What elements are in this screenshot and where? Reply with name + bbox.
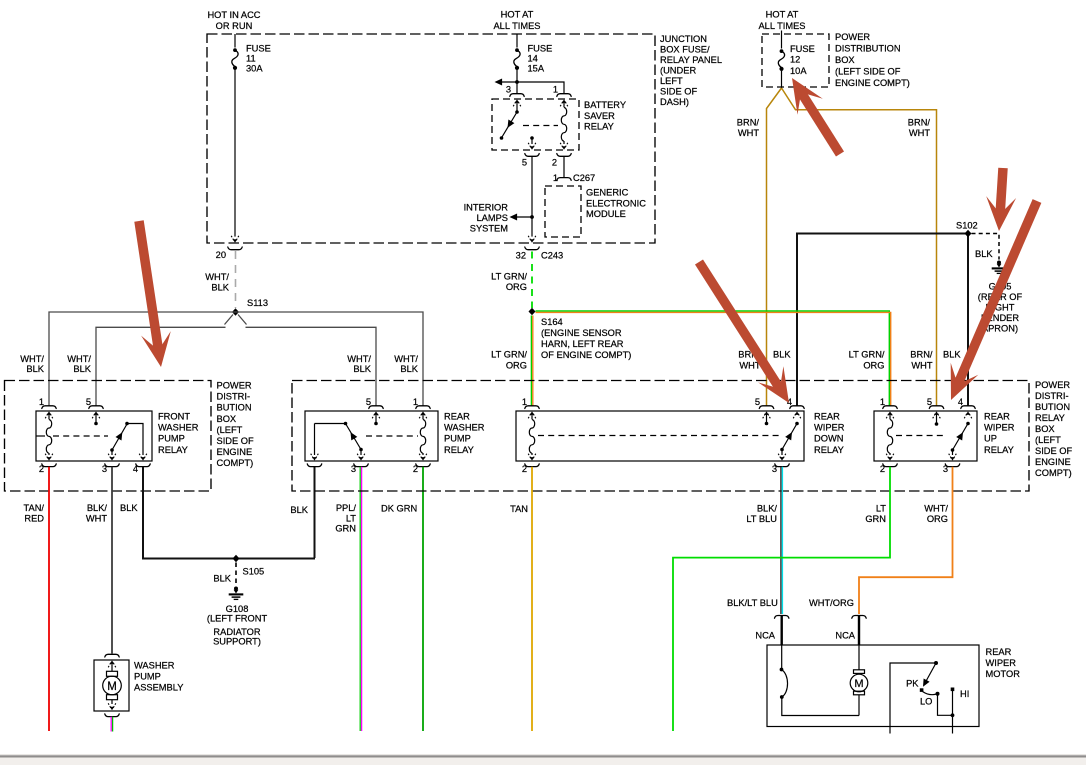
svg-text:DASH): DASH) — [660, 97, 689, 107]
junction box fuse/relay panel (dashed enclosure) — [207, 34, 655, 243]
svg-text:(LEFT: (LEFT — [217, 425, 243, 435]
svg-text:TAN: TAN — [510, 504, 528, 514]
svg-text:GENERIC: GENERIC — [586, 188, 629, 198]
svg-text:BLK: BLK — [211, 282, 229, 292]
wire stub to other circuits (left arrow) — [500, 81, 517, 83]
svg-text:(LEFT SIDE OF: (LEFT SIDE OF — [835, 66, 901, 76]
svg-text:BLK: BLK — [120, 503, 138, 513]
rear wiper up relay — [874, 411, 977, 461]
wire WHT/ORG from pin 3 — [859, 467, 953, 614]
svg-text:BUTION: BUTION — [217, 403, 252, 413]
wire BLK dashed to ground G105 — [972, 234, 1000, 260]
svg-text:WASHER: WASHER — [444, 423, 485, 433]
svg-text:RELAY: RELAY — [444, 445, 474, 455]
splice S164 — [529, 308, 536, 315]
svg-text:REAR: REAR — [814, 412, 840, 422]
svg-text:1: 1 — [553, 173, 558, 183]
svg-text:MODULE: MODULE — [586, 209, 626, 219]
washer pump motor M — [107, 671, 118, 676]
svg-text:ENGINE COMPT): ENGINE COMPT) — [835, 78, 910, 88]
svg-text:WIPER: WIPER — [984, 423, 1015, 433]
svg-text:ORG: ORG — [506, 282, 527, 292]
rear washer pump relay — [305, 411, 438, 461]
wire DK GRN from pin 2 — [422, 467, 424, 731]
svg-text:RELAY PANEL: RELAY PANEL — [660, 55, 722, 65]
svg-text:FUSE: FUSE — [246, 44, 271, 54]
ground G105 — [992, 261, 1007, 274]
svg-text:LT GRN/: LT GRN/ — [491, 350, 527, 360]
svg-text:DISTRI-: DISTRI- — [217, 392, 251, 402]
svg-text:BATTERY: BATTERY — [584, 100, 626, 110]
svg-text:S105: S105 — [243, 567, 265, 577]
washer pump assembly — [105, 654, 119, 657]
wire WHT/BLK branches from S113 — [49, 312, 236, 406]
node HI — [951, 688, 955, 692]
svg-text:RELAY: RELAY — [1035, 413, 1065, 423]
svg-text:COMPT): COMPT) — [1035, 468, 1072, 478]
wire battery saver pin 5 down to pin 32 — [531, 156, 533, 236]
svg-text:BLK: BLK — [975, 249, 993, 259]
svg-text:C267: C267 — [573, 173, 595, 183]
svg-text:NCA: NCA — [835, 631, 855, 641]
svg-text:DISTRI-: DISTRI- — [1035, 391, 1069, 401]
wire WHT/BLK dashed from pin 20 to S113 — [235, 251, 237, 308]
svg-text:PPL/: PPL/ — [336, 503, 357, 513]
generic electronic module (dashed box) — [545, 186, 581, 237]
svg-text:LT GRN/: LT GRN/ — [491, 272, 527, 282]
svg-text:BRN/: BRN/ — [910, 350, 933, 360]
svg-text:INTERIOR: INTERIOR — [464, 203, 509, 213]
wire junction to battery saver relay pin 1 — [517, 82, 564, 93]
junction to interior lamps system — [530, 215, 534, 219]
svg-text:RELAY: RELAY — [584, 122, 614, 132]
svg-text:LAMPS: LAMPS — [476, 213, 508, 223]
power distribution relay box (dashed enclosure) — [292, 381, 1029, 492]
svg-text:GRN: GRN — [865, 514, 886, 524]
svg-text:BRN/: BRN/ — [737, 118, 760, 128]
svg-text:MOTOR: MOTOR — [986, 669, 1021, 679]
svg-text:BLK: BLK — [943, 350, 961, 360]
svg-text:LT BLU: LT BLU — [746, 514, 777, 524]
wire BLK joining front and rear washer relays — [142, 558, 315, 560]
park switch contact — [781, 645, 783, 670]
svg-text:14: 14 — [528, 54, 538, 64]
svg-text:RELAY: RELAY — [158, 445, 188, 455]
wire BLK from rear washer relay to S105 — [314, 467, 316, 558]
svg-text:LEFT: LEFT — [660, 76, 683, 86]
wire to fuse 14 — [516, 34, 518, 48]
svg-text:WHT/ORG: WHT/ORG — [809, 598, 854, 608]
rear wiper up relay switch — [966, 422, 970, 426]
svg-text:WHT/: WHT/ — [394, 354, 418, 364]
rear wiper down relay switch — [795, 422, 799, 426]
wire fuse 11 to pin 20 — [234, 70, 236, 237]
svg-text:BLK: BLK — [400, 364, 418, 374]
svg-text:REAR: REAR — [984, 412, 1010, 422]
wire junction down to battery saver relay pin 3 — [516, 82, 518, 93]
svg-text:WHT/: WHT/ — [205, 272, 229, 282]
svg-text:BLK: BLK — [773, 350, 791, 360]
svg-text:ORG: ORG — [927, 514, 948, 524]
svg-text:C243: C243 — [541, 251, 563, 261]
svg-text:FUSE: FUSE — [528, 44, 553, 54]
svg-text:ORG: ORG — [506, 360, 527, 370]
rear wiper up relay coil — [889, 412, 891, 419]
svg-text:UP: UP — [984, 434, 997, 444]
svg-text:20: 20 — [216, 250, 226, 260]
svg-text:DISTRIBUTION: DISTRIBUTION — [835, 44, 901, 54]
svg-text:PK: PK — [906, 679, 919, 689]
svg-text:SIDE OF: SIDE OF — [1035, 446, 1073, 456]
svg-text:S113: S113 — [247, 298, 268, 308]
svg-text:11: 11 — [246, 54, 256, 64]
svg-text:BLK/LT BLU: BLK/LT BLU — [727, 598, 778, 608]
svg-text:ALL TIMES: ALL TIMES — [493, 21, 540, 31]
svg-text:RADIATOR: RADIATOR — [213, 627, 260, 637]
wire LT GRN/ORG dashed from pin 32 to S164 — [531, 252, 533, 309]
svg-text:BRN/: BRN/ — [908, 118, 931, 128]
rear wiper motor M — [858, 645, 860, 670]
window bottom bar — [0, 754, 1086, 755]
svg-text:OF ENGINE COMPT): OF ENGINE COMPT) — [541, 350, 631, 360]
svg-text:REAR: REAR — [444, 412, 470, 422]
svg-text:15A: 15A — [528, 64, 545, 74]
relay actuator (dashed link) — [366, 435, 418, 437]
front washer relay switch — [110, 448, 114, 452]
svg-text:HOT IN ACC: HOT IN ACC — [207, 10, 260, 20]
svg-text:TAN/: TAN/ — [24, 503, 45, 513]
junction node below fuse 14 — [515, 80, 519, 84]
wire TAN/RED from pin 2 — [48, 467, 50, 731]
svg-text:RELAY: RELAY — [814, 445, 844, 455]
svg-text:BLK: BLK — [26, 364, 44, 374]
svg-text:2: 2 — [552, 158, 557, 168]
svg-text:S164: S164 — [541, 317, 563, 327]
svg-text:10A: 10A — [790, 66, 807, 76]
wire BLK/LT BLU from pin 3 — [780, 467, 782, 614]
battery saver relay switch — [516, 101, 518, 113]
svg-text:ELECTRONIC: ELECTRONIC — [586, 198, 646, 208]
power distribution box (fuse 12, dashed) — [762, 34, 829, 87]
svg-text:WIPER: WIPER — [986, 658, 1017, 668]
svg-text:5: 5 — [522, 158, 527, 168]
wire PNK/GRN stub below washer pump — [110, 717, 112, 732]
svg-text:FUSE: FUSE — [790, 44, 815, 54]
svg-text:BOX: BOX — [217, 414, 237, 424]
svg-text:BOX FUSE/: BOX FUSE/ — [660, 45, 710, 55]
svg-text:FRONT: FRONT — [158, 412, 190, 422]
svg-text:WASHER: WASHER — [134, 661, 175, 671]
splice S102 — [965, 230, 972, 237]
svg-text:PUMP: PUMP — [134, 672, 161, 682]
svg-text:OR RUN: OR RUN — [216, 21, 253, 31]
svg-text:12: 12 — [790, 55, 800, 65]
svg-text:BLK/: BLK/ — [757, 504, 778, 514]
rear wiper down relay — [516, 411, 804, 461]
svg-text:DOWN: DOWN — [814, 434, 843, 444]
svg-text:ENGINE: ENGINE — [1035, 457, 1071, 467]
node LO — [936, 692, 940, 696]
relay actuator (dashed link) — [53, 435, 108, 437]
svg-text:ENGINE: ENGINE — [217, 447, 253, 457]
wire LT GRN from pin 2 — [673, 467, 890, 731]
svg-text:LT: LT — [876, 504, 886, 514]
wire BLK dashed to ground G108 — [235, 563, 237, 587]
svg-text:RELAY: RELAY — [984, 445, 1014, 455]
front washer relay coil — [48, 412, 50, 419]
pin 5 internal stub — [530, 136, 534, 140]
svg-text:WHT: WHT — [86, 513, 107, 523]
svg-text:DK GRN: DK GRN — [381, 504, 417, 514]
svg-text:ORG: ORG — [863, 360, 884, 370]
wire TAN from pin 2 — [531, 467, 533, 731]
fuse 11 30A — [232, 48, 238, 70]
svg-text:SIDE OF: SIDE OF — [660, 87, 698, 97]
svg-text:3: 3 — [506, 85, 511, 95]
relay actuator (dashed link) — [896, 435, 946, 437]
power distribution box (left side of engine compt, dashed) — [5, 381, 212, 492]
svg-text:BUTION: BUTION — [1035, 402, 1070, 412]
relay actuator (dashed link) — [538, 435, 780, 437]
fuse 14 15A — [514, 48, 520, 70]
svg-text:(UNDER: (UNDER — [660, 66, 696, 76]
svg-text:SUPPORT): SUPPORT) — [213, 637, 261, 647]
svg-text:BLK: BLK — [353, 364, 371, 374]
svg-text:1: 1 — [553, 85, 558, 95]
svg-text:LT GRN/: LT GRN/ — [849, 350, 885, 360]
annotation arrow 3 (rear wiper up relay) — [951, 201, 1037, 400]
park/speed selector — [890, 663, 936, 727]
relay actuator (dashed link) — [523, 125, 558, 127]
rear washer relay switch — [315, 423, 346, 425]
battery saver relay coil — [563, 101, 565, 108]
wire from HOT IN ACC to fuse 11 — [234, 34, 236, 48]
wire BRN/WHT split (Y) below fuse 12 — [767, 88, 782, 406]
svg-text:WHT: WHT — [738, 128, 759, 138]
svg-text:ALL TIMES: ALL TIMES — [758, 21, 805, 31]
svg-text:JUNCTION: JUNCTION — [660, 34, 707, 44]
rear washer relay coil — [422, 412, 424, 419]
svg-text:HOT AT: HOT AT — [766, 10, 799, 20]
svg-text:HARN, LEFT REAR: HARN, LEFT REAR — [541, 339, 624, 349]
svg-text:WHT/: WHT/ — [67, 354, 91, 364]
svg-text:SYSTEM: SYSTEM — [470, 224, 508, 234]
svg-text:G108: G108 — [226, 604, 249, 614]
svg-text:WHT/: WHT/ — [347, 354, 371, 364]
svg-text:REAR: REAR — [986, 647, 1012, 657]
annotation arrow 1 (S113/front relay) — [139, 221, 171, 367]
svg-text:HOT AT: HOT AT — [501, 10, 534, 20]
splice S113 — [232, 308, 239, 315]
rear wiper down relay coil — [531, 412, 533, 419]
splice S105 — [233, 555, 240, 562]
svg-text:5: 5 — [755, 397, 760, 407]
svg-text:BOX: BOX — [835, 55, 855, 65]
svg-text:(LEFT: (LEFT — [1035, 435, 1061, 445]
svg-text:COMPT): COMPT) — [217, 458, 254, 468]
ground G108 — [229, 587, 244, 600]
wire stub above fuse 12 — [781, 31, 783, 49]
wire BLK from pin 4 to S105 — [142, 467, 144, 558]
svg-text:NCA: NCA — [755, 631, 775, 641]
svg-text:WIPER: WIPER — [814, 423, 845, 433]
svg-text:BLK: BLK — [73, 364, 91, 374]
wire BLK from rear wiper down relay pin 4 up and right to S102 — [797, 234, 968, 406]
svg-text:WHT: WHT — [909, 128, 930, 138]
svg-text:M: M — [107, 681, 117, 693]
svg-text:LO: LO — [920, 697, 932, 707]
svg-text:HI: HI — [960, 689, 969, 699]
unnumbered ground pin — [307, 464, 321, 467]
svg-text:PUMP: PUMP — [444, 434, 471, 444]
annotation arrow 2 (rear wiper down relay) — [699, 262, 789, 403]
front washer pump relay — [36, 411, 152, 461]
svg-text:32: 32 — [516, 251, 526, 261]
wire PPL/LT GRN from pin 3 — [359, 467, 361, 731]
wire pin 2 to C267 — [563, 156, 565, 177]
svg-text:SIDE OF: SIDE OF — [217, 436, 255, 446]
annotation arrow 4 (fuse 12) — [792, 78, 840, 154]
battery saver relay (dashed box) — [492, 99, 579, 150]
svg-text:POWER: POWER — [835, 32, 870, 42]
wire LT GRN/ORG S164 down to rear wiper down relay pin 1 — [530, 316, 532, 406]
svg-text:BLK: BLK — [213, 574, 231, 584]
svg-text:BOX: BOX — [1035, 424, 1055, 434]
svg-text:30A: 30A — [246, 64, 263, 74]
svg-text:PUMP: PUMP — [158, 434, 185, 444]
svg-text:POWER: POWER — [1035, 380, 1070, 390]
svg-text:SAVER: SAVER — [584, 111, 615, 121]
motor output stubs — [889, 727, 891, 734]
svg-text:(ENGINE SENSOR: (ENGINE SENSOR — [541, 328, 622, 338]
svg-text:S102: S102 — [956, 221, 978, 231]
wire fuse 14 to junction — [516, 70, 518, 82]
svg-text:BLK/: BLK/ — [87, 503, 108, 513]
svg-text:LT: LT — [346, 513, 356, 523]
svg-text:WHT: WHT — [911, 360, 932, 370]
svg-text:WHT/: WHT/ — [20, 354, 44, 364]
annotation arrow 5 (S102/G105) — [986, 168, 1016, 231]
svg-text:ASSEMBLY: ASSEMBLY — [134, 683, 183, 693]
svg-text:WASHER: WASHER — [158, 423, 199, 433]
svg-text:POWER: POWER — [217, 381, 252, 391]
svg-text:GRN: GRN — [335, 524, 356, 534]
svg-text:WHT/: WHT/ — [924, 504, 948, 514]
svg-text:(LEFT FRONT: (LEFT FRONT — [207, 614, 268, 624]
wire BLK/WHT from pin 3 to washer pump — [111, 467, 113, 654]
svg-text:BLK: BLK — [290, 505, 308, 515]
rear wiper motor — [767, 645, 979, 727]
svg-text:RED: RED — [24, 513, 44, 523]
fuse 12 10A — [778, 49, 784, 71]
svg-text:M: M — [854, 678, 863, 690]
wire LT GRN/ORG S164 right to rear wiper up relay pin 1 — [536, 311, 890, 406]
